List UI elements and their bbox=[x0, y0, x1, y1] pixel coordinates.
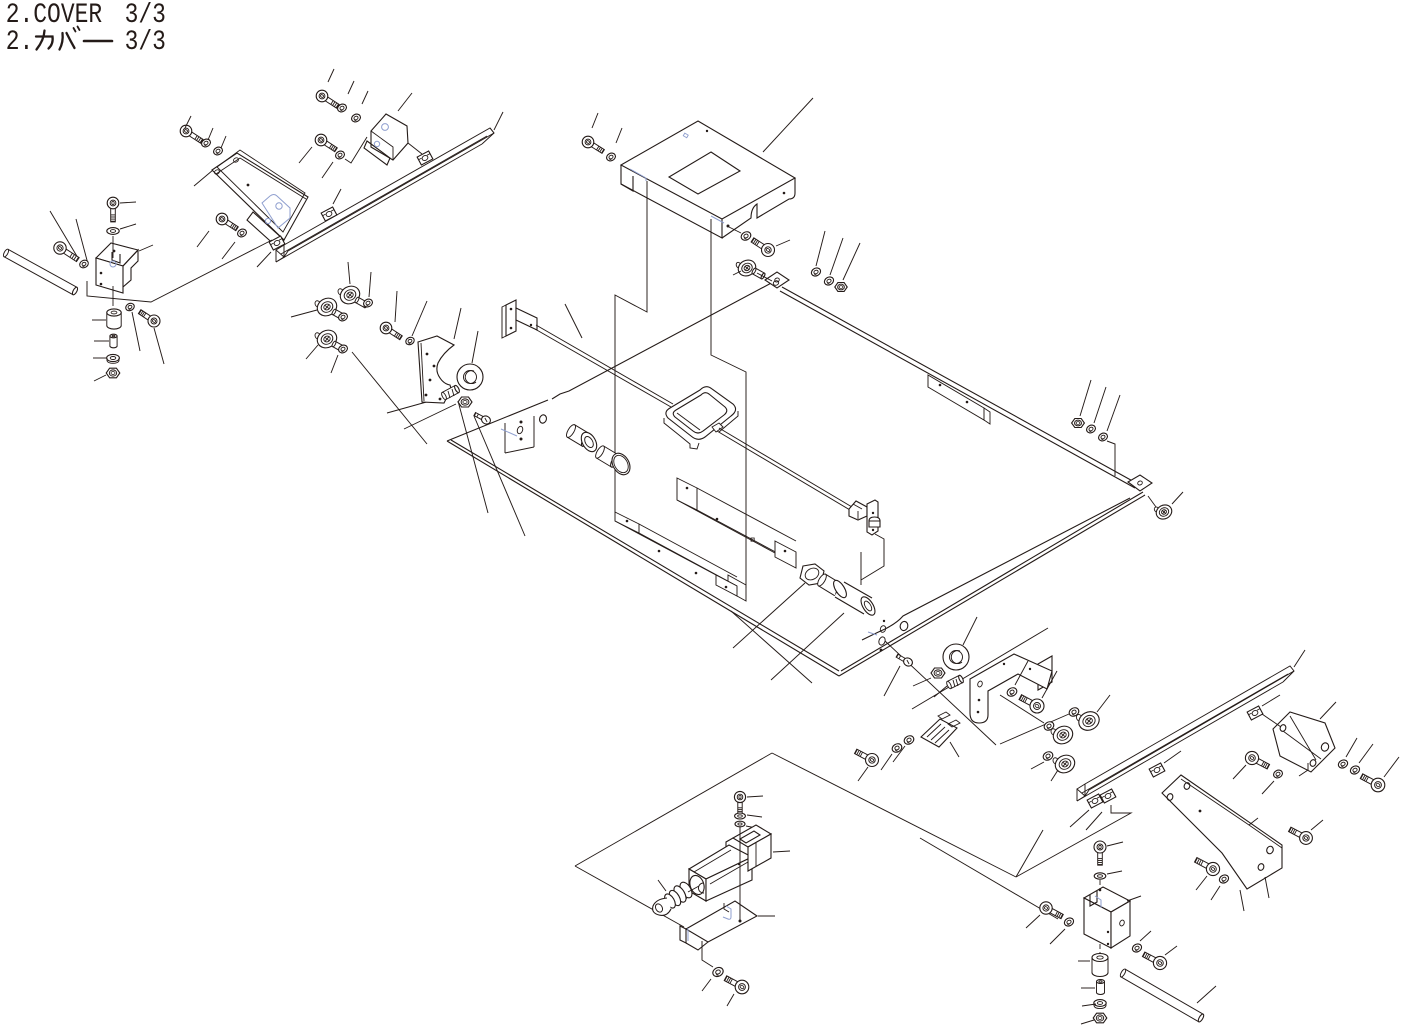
roller RL9 bbox=[1051, 752, 1078, 781]
stem line bbox=[112, 236, 114, 306]
title text line 1 bbox=[6, 0, 166, 31]
latch bracket LB1 bbox=[921, 712, 960, 757]
leader from frame flange bbox=[731, 611, 812, 683]
cover hole dot bbox=[706, 130, 786, 228]
nut N5 bbox=[1072, 380, 1091, 428]
washer WR3 bbox=[331, 344, 349, 373]
washer W5 bbox=[200, 128, 213, 148]
washer W2 bbox=[107, 224, 136, 234]
pin PIN1 bbox=[94, 334, 117, 348]
cover blue mark 2 bbox=[630, 169, 646, 181]
leader cross K1 bbox=[912, 628, 1048, 709]
bolt BK1 bbox=[1019, 671, 1057, 713]
frame left wall bbox=[501, 414, 547, 453]
bolt B2 vertical bbox=[107, 197, 119, 222]
leader BK2b bbox=[858, 767, 868, 781]
wire hook bbox=[1016, 805, 1131, 877]
screw S2 bbox=[474, 413, 492, 426]
clamp block CB2 bbox=[1084, 887, 1130, 948]
washer WM4 bbox=[1082, 1000, 1106, 1009]
washer WO2 bbox=[1337, 738, 1357, 770]
washer W14 bbox=[1085, 387, 1106, 434]
clamp nut CN6 bbox=[1087, 794, 1103, 808]
washer WR1 bbox=[362, 272, 374, 308]
washer WR4 bbox=[404, 301, 427, 346]
leader to left bracket nut bbox=[404, 404, 456, 429]
latch pad PD1 bbox=[664, 387, 738, 449]
bolt BO2 bbox=[1360, 757, 1399, 792]
nut NM1 bbox=[1081, 1013, 1107, 1024]
frame right corner tab bbox=[1128, 475, 1152, 491]
bolt B6 bbox=[316, 69, 339, 108]
leader RL4 bbox=[291, 310, 317, 317]
stud ST2 bbox=[934, 675, 964, 697]
leader CB2 bbox=[1127, 896, 1141, 901]
bolt B8 bbox=[582, 113, 604, 153]
washer W11 bbox=[810, 231, 825, 278]
bolt BM1 bbox=[1026, 902, 1063, 928]
leader clamp bbox=[139, 245, 153, 251]
washer W1 bbox=[78, 259, 89, 270]
bolt BS1 bbox=[724, 976, 749, 1006]
bracket plate RBP bbox=[1273, 712, 1335, 776]
bracket plate BP bbox=[1162, 775, 1282, 889]
U-bracket UB1 bbox=[970, 654, 1052, 723]
bolt BK2b bbox=[855, 749, 879, 766]
bushing BSH bbox=[565, 423, 600, 454]
plunger bbox=[653, 880, 699, 915]
T-bracket TB1 bbox=[502, 300, 537, 338]
solenoid plate MP bbox=[680, 901, 775, 950]
clamp nut CN4 bbox=[1247, 695, 1280, 720]
leader to clamp washer bbox=[76, 219, 88, 264]
cover blue mark 1 bbox=[683, 133, 688, 138]
rail R1 bbox=[276, 128, 494, 262]
frame far right edge bbox=[780, 287, 1138, 488]
leader to left bracket stud bbox=[387, 396, 448, 413]
frame flange strip bbox=[615, 512, 737, 596]
leader to clamp bolt bbox=[50, 211, 78, 258]
washer WN1 bbox=[1211, 873, 1230, 900]
washer WO3 bbox=[1349, 744, 1373, 776]
axle rod RD2 bbox=[717, 428, 852, 510]
washer WK4 bbox=[1031, 750, 1054, 769]
leader rail R1 bbox=[494, 112, 503, 130]
svg-text:3/3: 3/3 bbox=[125, 26, 166, 58]
roller RL5 bbox=[314, 327, 346, 352]
bolt BLT bbox=[594, 445, 634, 478]
boundary right bbox=[772, 753, 1016, 877]
link to hole bbox=[757, 273, 779, 286]
vert screw M bbox=[1094, 841, 1123, 865]
hex bolt BB1 bbox=[800, 564, 846, 598]
frame near left edge bbox=[447, 440, 839, 676]
leader WK6 bbox=[881, 754, 892, 770]
washer W12 bbox=[823, 238, 843, 287]
washer WK1 bbox=[1006, 661, 1028, 698]
spacer CYL1 bbox=[92, 309, 121, 329]
big cylinder CYL2 bbox=[831, 578, 878, 617]
leader RL5 bbox=[306, 345, 318, 359]
leader CN6 bbox=[1070, 810, 1089, 827]
screw S3 bbox=[884, 654, 914, 696]
line E bbox=[920, 838, 1058, 919]
solenoid washer 1 bbox=[735, 813, 762, 819]
cover leader bbox=[763, 98, 813, 152]
clamp nut CN7 bbox=[1100, 789, 1116, 803]
leader to frame left corner bbox=[352, 352, 427, 444]
nut N3 bbox=[458, 397, 472, 407]
stud ST1 bbox=[441, 385, 461, 401]
leader CN7 bbox=[1086, 812, 1102, 830]
spacer M bbox=[1078, 954, 1108, 977]
frame rim plate bbox=[928, 375, 990, 424]
leader rod1 bbox=[565, 304, 582, 338]
washer W8 bbox=[336, 81, 354, 113]
washer W13 bbox=[729, 227, 752, 242]
washer WK6 bbox=[891, 742, 904, 754]
cut line 1 bbox=[615, 181, 647, 512]
bolt BN1 bbox=[1195, 858, 1220, 891]
washer W6 bbox=[212, 136, 226, 156]
roller RL6 bbox=[943, 617, 977, 670]
plate P1 bbox=[212, 150, 308, 248]
bolt B9 bbox=[751, 238, 790, 257]
clamp nut CN2 bbox=[417, 151, 433, 165]
plate stem bbox=[702, 941, 713, 967]
bolt B1 bbox=[54, 242, 79, 262]
washer W3 bbox=[124, 302, 140, 351]
leader BP2 bbox=[1240, 890, 1244, 911]
leader RL3 bbox=[348, 262, 350, 284]
bolt B4 bbox=[180, 125, 203, 143]
leader BK2 bbox=[398, 93, 412, 111]
link line clamp to rail bbox=[87, 240, 272, 302]
washer WK5 bbox=[903, 734, 916, 746]
support rod bbox=[2, 248, 78, 295]
washer W7 bbox=[222, 228, 248, 259]
end roller ER bbox=[1148, 492, 1183, 522]
washer W16 bbox=[605, 128, 622, 162]
washer WM3 bbox=[1131, 931, 1151, 954]
washer WO1 bbox=[1262, 769, 1284, 794]
cover front face bbox=[621, 184, 722, 238]
frame inner right edge bbox=[862, 498, 1130, 640]
leader P2 bbox=[454, 308, 461, 339]
washer WR2 bbox=[337, 312, 349, 323]
rod ROD2 bbox=[1119, 968, 1216, 1022]
bolt B3 bbox=[138, 310, 164, 364]
solenoid body bbox=[688, 825, 771, 901]
nut N2 bbox=[835, 243, 860, 291]
solenoid washer 2 bbox=[735, 821, 761, 829]
solenoid screw bbox=[734, 791, 763, 813]
link CN4 RBP bbox=[1262, 714, 1281, 727]
leader RBP bbox=[1320, 702, 1336, 719]
bolt B10 bbox=[380, 291, 402, 340]
washer W9 bbox=[350, 91, 368, 123]
washer WM1 bbox=[1094, 871, 1122, 879]
bolt BN2 bbox=[1289, 820, 1324, 844]
boundary left bbox=[575, 753, 772, 866]
frame far left edge bbox=[447, 281, 775, 441]
frame top corner tab bbox=[765, 272, 789, 288]
solenoid leader bbox=[773, 851, 790, 852]
roller RL1 bbox=[733, 257, 766, 279]
dash line M bbox=[1099, 880, 1101, 957]
cover right face bbox=[722, 178, 795, 238]
leader from hex bolt bbox=[733, 583, 805, 648]
washer W10 bbox=[334, 137, 367, 163]
leader crossing frame 2 bbox=[474, 416, 525, 536]
T-latch TL1 bbox=[849, 500, 880, 535]
washer WK2 bbox=[1000, 706, 1080, 744]
cover top face bbox=[621, 121, 795, 219]
solenoid stem2 bbox=[738, 827, 742, 923]
cut line TL1 bbox=[861, 534, 884, 585]
leader cross K2 bbox=[885, 641, 996, 745]
nut N1 bbox=[94, 368, 120, 381]
bolt BO1 bbox=[1233, 751, 1270, 779]
leader B2 bbox=[120, 202, 136, 203]
bolt BM2 bbox=[1142, 946, 1177, 970]
leader rail R2 bbox=[1294, 650, 1305, 667]
link BK2 rail bbox=[408, 143, 422, 154]
washer WS1 bbox=[702, 966, 725, 991]
roller RL3 bbox=[337, 283, 369, 308]
rail R2 bbox=[1077, 666, 1294, 801]
boundary left low bbox=[575, 866, 684, 927]
leader from big bushing bbox=[771, 613, 844, 680]
washer WM2 bbox=[1050, 916, 1075, 944]
svg-text:2.: 2. bbox=[6, 26, 34, 58]
U-bracket flange bbox=[1038, 656, 1052, 690]
roller RL8 bbox=[1050, 723, 1076, 747]
clamp nut CN1 bbox=[321, 189, 341, 221]
title text line 2 bbox=[6, 26, 166, 58]
frame near right edge bbox=[839, 492, 1145, 676]
cover blue mark 3 bbox=[711, 216, 724, 223]
clamp nut CN3 bbox=[257, 236, 285, 267]
cut line 2 bbox=[711, 219, 746, 601]
bracket BK2 bbox=[364, 114, 408, 165]
clamp block CB1 bbox=[96, 243, 138, 293]
boundary leader D bbox=[1016, 830, 1043, 877]
roller RL4 bbox=[314, 295, 346, 320]
washer W4 bbox=[93, 354, 119, 363]
clamp nut CN5 bbox=[1149, 751, 1181, 777]
cover left flange bbox=[621, 165, 633, 191]
pin M bbox=[1081, 980, 1105, 995]
leader WK5 bbox=[893, 746, 905, 762]
frame holes K bbox=[868, 620, 909, 652]
axle rod RD1 bbox=[535, 325, 673, 407]
washer WK3 bbox=[1000, 695, 1055, 732]
washer W15 bbox=[1097, 395, 1120, 476]
leader B4 bbox=[185, 116, 191, 128]
cover hole bbox=[669, 152, 740, 194]
roller RL7 bbox=[1075, 695, 1110, 734]
nut N4 bbox=[913, 668, 945, 686]
leader P1 bbox=[194, 170, 213, 186]
bolt B7 bbox=[299, 134, 337, 178]
solenoid stem bbox=[739, 827, 741, 866]
leader crossing frame 1 bbox=[458, 401, 488, 513]
roller RL2 bbox=[457, 331, 483, 390]
channel bracket bbox=[677, 478, 796, 568]
leader BP1 bbox=[1265, 877, 1269, 898]
bolt B5 bbox=[197, 213, 238, 247]
plate P2 bbox=[418, 336, 454, 403]
